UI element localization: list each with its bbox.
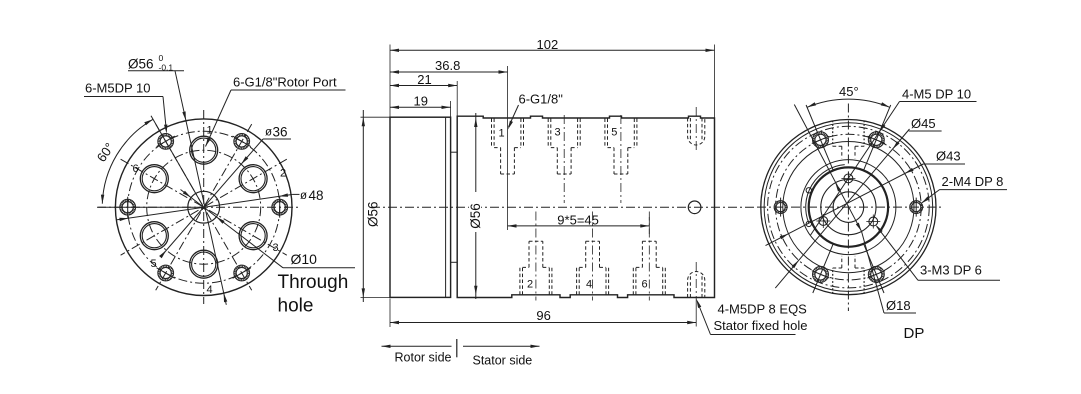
M5 tapped hole at 240 deg xyxy=(160,267,171,278)
svg-text:4-M5 DP 10: 4-M5 DP 10 xyxy=(902,87,971,102)
boss circle (bold) xyxy=(809,167,888,246)
port 3 hidden hole xyxy=(547,119,549,148)
svg-text:Ø10: Ø10 xyxy=(291,251,318,267)
svg-text:Rotor side: Rotor side xyxy=(395,351,452,365)
diagonal centerline 150 deg xyxy=(121,159,287,255)
M5 tapped hole at 180 deg xyxy=(122,202,133,213)
dimension Ø56 left xyxy=(362,110,364,302)
rotor port 6 (G1/8) xyxy=(140,165,168,193)
svg-text:102: 102 xyxy=(537,37,559,52)
svg-text:45°: 45° xyxy=(839,84,859,99)
port 5 hidden hole xyxy=(604,119,606,148)
svg-text:2: 2 xyxy=(280,168,286,180)
svg-text:3-M3 DP 6: 3-M3 DP 6 xyxy=(920,263,982,278)
dimension 102 xyxy=(390,49,715,51)
M4 tapped hole xyxy=(776,203,785,212)
bolt circle Ø45 xyxy=(776,134,922,280)
M3 tapped hole at 90 deg xyxy=(844,174,853,183)
svg-text:Ø45: Ø45 xyxy=(911,116,936,131)
stator fixed hole bottom (M5) xyxy=(688,272,705,298)
circle Ø10 xyxy=(833,192,864,223)
svg-text:4-M5DP 8 EQS: 4-M5DP 8 EQS xyxy=(718,302,808,317)
rotor port 3 (G1/8) xyxy=(239,222,267,250)
dimension 21 xyxy=(390,85,457,87)
svg-text:48: 48 xyxy=(309,188,324,203)
diagonal centerline 120 deg xyxy=(156,124,252,290)
port 6 centerline / extension xyxy=(648,212,650,301)
dimension 96 xyxy=(390,322,696,324)
svg-text:5: 5 xyxy=(151,258,157,270)
svg-text:9*5=45: 9*5=45 xyxy=(557,212,599,227)
M5 tapped hole at 0 deg xyxy=(274,202,285,213)
port 2 centerline xyxy=(535,212,537,301)
svg-text:Stator side: Stator side xyxy=(473,354,533,368)
partial arc feature xyxy=(806,165,845,224)
45 degree dimension xyxy=(807,99,890,107)
svg-text:36: 36 xyxy=(273,125,288,140)
center hole Ø10 xyxy=(188,191,220,223)
svg-text:5: 5 xyxy=(611,127,617,139)
svg-text:3: 3 xyxy=(273,242,279,254)
svg-text:36.8: 36.8 xyxy=(435,58,460,73)
M3 tapped hole at 209 deg xyxy=(819,217,828,226)
bolt circle Ø36 xyxy=(147,150,261,264)
svg-text:6-G1/8"Rotor Port: 6-G1/8"Rotor Port xyxy=(233,75,337,90)
rotor side / stator side footer xyxy=(382,345,452,347)
svg-text:6: 6 xyxy=(133,163,139,175)
M5 mounting hole at 67.5 deg xyxy=(871,134,882,145)
M5 tapped hole at 120 deg xyxy=(160,136,171,147)
rotor flange rectangle xyxy=(390,117,451,297)
bolt circle Ø48 xyxy=(128,131,280,283)
svg-text:4: 4 xyxy=(207,284,213,296)
svg-text:ø: ø xyxy=(265,127,272,139)
svg-text:DP: DP xyxy=(904,325,925,342)
inner circle xyxy=(801,160,896,255)
M4 tapped hole xyxy=(912,203,921,212)
svg-text:Ø56: Ø56 xyxy=(128,57,154,72)
svg-text:96: 96 xyxy=(536,308,550,323)
rotor port 1 (G1/8) xyxy=(190,136,218,164)
svg-text:21: 21 xyxy=(417,72,431,87)
svg-text:hole: hole xyxy=(278,296,314,317)
rotor port 4 (G1/8) xyxy=(190,250,218,278)
dimension Ø10 Through hole xyxy=(181,190,284,268)
M5 mounting hole at 247.5 deg xyxy=(815,269,826,280)
svg-text:Stator fixed hole: Stator fixed hole xyxy=(714,318,808,333)
port 1 hidden hole xyxy=(491,119,493,148)
port 3 centerline xyxy=(563,115,565,203)
port 4 hidden hole xyxy=(576,267,578,294)
svg-text:2-M4 DP 8: 2-M4 DP 8 xyxy=(942,174,1004,189)
60 degree angular dimension xyxy=(151,116,204,207)
dimension Ø56 right xyxy=(475,113,477,299)
svg-text:6-G1/8": 6-G1/8" xyxy=(519,92,564,107)
horizontal centerline xyxy=(371,206,754,208)
outer circle Ø56 flange xyxy=(115,119,292,296)
dimension Ø56 0/-0.1 xyxy=(175,71,226,305)
svg-text:3: 3 xyxy=(555,127,561,139)
svg-text:4: 4 xyxy=(586,279,592,291)
bottom ports hidden projection xyxy=(832,268,834,294)
M5 tapped hole at 300 deg xyxy=(236,267,247,278)
svg-text:2: 2 xyxy=(527,279,533,291)
svg-text:Ø56: Ø56 xyxy=(468,203,483,229)
M5 tapped hole at 60 deg xyxy=(236,136,247,147)
svg-text:Ø18: Ø18 xyxy=(886,298,911,313)
port 1 centerline / extension xyxy=(507,66,509,230)
dimension 19 xyxy=(390,106,451,108)
vertical centerline xyxy=(203,110,205,304)
svg-text:Ø43: Ø43 xyxy=(936,149,961,164)
top ports hidden projection xyxy=(832,121,834,147)
outer circle xyxy=(761,120,936,295)
horizontal centerline xyxy=(757,206,944,208)
rotor port 2 (G1/8) xyxy=(239,165,267,193)
circle Ø43 xyxy=(783,142,914,273)
svg-text:0: 0 xyxy=(159,53,164,63)
orientation pin hole xyxy=(688,201,701,214)
svg-text:1: 1 xyxy=(207,125,213,137)
M5 mounting hole at 112.5 deg xyxy=(815,134,826,145)
M5 mounting hole at 292.5 deg xyxy=(871,269,882,280)
dimension 9*5=45 xyxy=(508,225,650,227)
circle Ø18 xyxy=(821,180,876,235)
port 6 hidden hole xyxy=(632,267,634,294)
dimension 36.8 xyxy=(390,71,508,73)
port 5 centerline xyxy=(620,115,622,203)
svg-text:ø: ø xyxy=(300,190,307,202)
svg-text:1: 1 xyxy=(499,128,505,140)
hidden groove circle xyxy=(768,126,930,288)
dimension Ø48 xyxy=(117,194,293,219)
svg-text:Through: Through xyxy=(278,272,349,293)
diagonal centerline 30 deg xyxy=(121,159,287,255)
svg-text:Ø56: Ø56 xyxy=(366,201,381,227)
hub lines in gap xyxy=(451,151,458,153)
M3 tapped hole at 330 deg xyxy=(869,217,878,226)
svg-text:6-M5DP 10: 6-M5DP 10 xyxy=(85,81,151,96)
stator body outline xyxy=(457,116,714,297)
horizontal centerline xyxy=(97,206,299,208)
port 4 centerline xyxy=(592,212,594,301)
vertical centerline xyxy=(847,104,849,312)
svg-text:19: 19 xyxy=(414,94,428,109)
small pin circles xyxy=(806,188,811,193)
port 2 hidden hole xyxy=(519,267,521,294)
stator fixed hole top (M5) xyxy=(688,118,705,145)
svg-text:6: 6 xyxy=(642,279,648,291)
rotor port 5 (G1/8) xyxy=(140,222,168,250)
rim step circle xyxy=(764,123,933,292)
diagonal centerline 60 deg xyxy=(156,124,252,290)
